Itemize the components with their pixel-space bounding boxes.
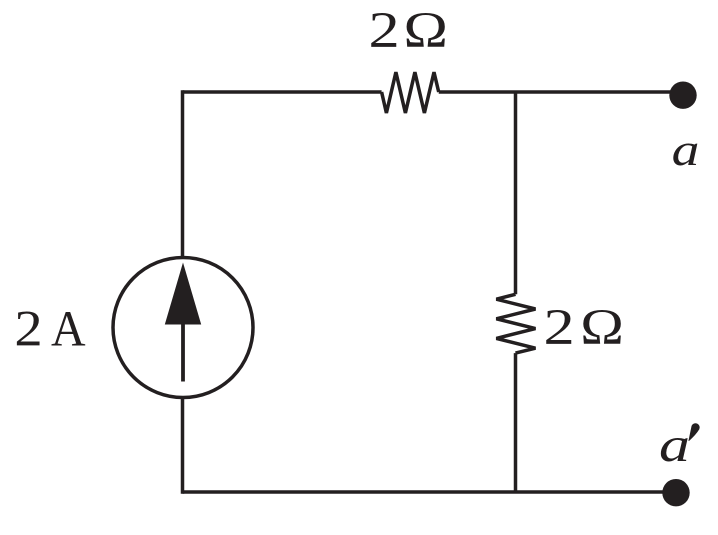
wire middle vertical from top junction down to resistor R2 [514, 92, 518, 294]
wire middle vertical from R2 down to bottom junction [514, 353, 518, 492]
label node a [672, 124, 700, 175]
svg-text:A: A [51, 302, 86, 358]
current source arrow shaft [181, 324, 185, 382]
terminal node a-prime dot [662, 479, 689, 506]
wire left vertical from current source down to bottom wire [181, 397, 185, 494]
current source I1 circle [113, 258, 253, 398]
svg-text:2: 2 [544, 300, 575, 356]
svg-text:Ω: Ω [580, 300, 624, 356]
terminal node a dot [669, 82, 696, 109]
label 2 A for current source I1 [14, 302, 85, 358]
wire top-right horizontal from R1 to terminal a [439, 90, 671, 94]
label node a-prime [659, 417, 700, 472]
resistor R1 2-ohm horizontal zigzag [382, 72, 439, 113]
label 2-ohm for R1 [369, 3, 448, 59]
wire bottom horizontal from source branch to terminal a-prime [183, 490, 665, 494]
wire top-left horizontal from source branch to resistor R1 [183, 90, 382, 94]
svg-text:a: a [672, 124, 700, 175]
resistor R2 2-ohm vertical zigzag [496, 294, 535, 353]
svg-text:Ω: Ω [404, 3, 448, 59]
current source arrow head [165, 263, 201, 325]
label 2-ohm for R2 [544, 300, 624, 356]
svg-text:2: 2 [14, 302, 42, 358]
svg-text:2: 2 [369, 3, 400, 59]
svg-text:a: a [659, 417, 690, 472]
wire left vertical from top wire down to current source [181, 90, 185, 258]
